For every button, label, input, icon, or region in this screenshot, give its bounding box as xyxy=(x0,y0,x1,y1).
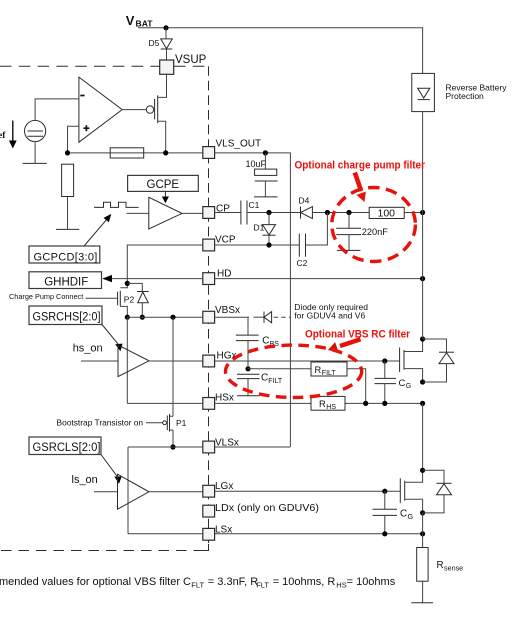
svg-text:C2: C2 xyxy=(297,258,308,268)
svg-text:C: C xyxy=(399,378,406,389)
svg-text:10uF: 10uF xyxy=(246,159,267,169)
pin VCP xyxy=(203,235,236,251)
node junction CG low bottom xyxy=(382,531,387,536)
wire battery box to CP node xyxy=(422,112,424,213)
svg-text:GCPCD[3:0]: GCPCD[3:0] xyxy=(34,252,98,264)
wire HD rail xyxy=(110,278,423,280)
label diode only required xyxy=(294,302,368,320)
svg-text:VBSx: VBSx xyxy=(215,305,240,316)
bottom note text xyxy=(0,576,396,589)
wire rail HD to HS drain xyxy=(422,213,424,340)
svg-text:HS: HS xyxy=(336,580,346,589)
transistor P1 bootstrap xyxy=(163,317,187,447)
capacitor CG low side xyxy=(373,491,414,534)
wire CP to C1 xyxy=(215,212,241,214)
op-amp U1 xyxy=(79,77,122,142)
resistor 100 xyxy=(369,207,404,219)
arrow GCPCD callout xyxy=(84,214,111,246)
node junction HS drain xyxy=(420,336,425,341)
diode D1 xyxy=(254,213,276,246)
node junction 10uF tap xyxy=(263,150,268,155)
wire driver HS supply column xyxy=(126,317,128,403)
svg-text:VSUP: VSUP xyxy=(175,54,207,66)
svg-text:for GDUV4 and V6: for GDUV4 and V6 xyxy=(294,310,365,320)
diode D4 xyxy=(299,196,313,219)
svg-text:R: R xyxy=(315,365,322,375)
svg-text:VLS_OUT: VLS_OUT xyxy=(216,139,262,150)
Reverse Battery Protection box xyxy=(412,73,507,111)
pin VLS_OUT xyxy=(203,139,261,159)
diode bootstrap internal xyxy=(127,283,148,317)
node junction PMOS drain xyxy=(163,150,168,155)
node junction sense top xyxy=(420,531,425,536)
resistor RHS xyxy=(311,396,345,411)
node junction P1 bottom xyxy=(170,444,175,449)
node junction VBAT-D5 xyxy=(163,25,168,30)
svg-text:GSRCLS[2:0]: GSRCLS[2:0] xyxy=(33,442,101,454)
wire LGx from driver xyxy=(149,491,203,493)
svg-text:G: G xyxy=(406,383,411,390)
svg-text:C1: C1 xyxy=(249,200,260,210)
node junction CG low top xyxy=(382,489,387,494)
svg-text:VCP: VCP xyxy=(215,235,236,246)
wire LS source to LSx xyxy=(422,513,424,548)
arrow into GHHDIF xyxy=(102,275,112,282)
node junction LS drain xyxy=(420,468,425,473)
wire non-inverting input xyxy=(68,126,79,153)
svg-text:ls_on: ls_on xyxy=(72,474,98,486)
ground divider xyxy=(56,228,79,230)
node junction P2 bottom xyxy=(125,315,130,320)
pin VLSx xyxy=(203,438,239,453)
svg-text:C: C xyxy=(262,336,269,347)
wire VBSx right to external diode xyxy=(215,316,249,318)
pin HD xyxy=(203,269,232,285)
label Bootstrap Transistor on xyxy=(57,418,163,428)
node junction filter node xyxy=(245,366,250,371)
node junction RFILT drop xyxy=(363,401,368,406)
label ref arrow xyxy=(0,121,17,149)
wire 100 to VBAT rail xyxy=(404,212,422,214)
svg-text:R: R xyxy=(319,399,326,409)
svg-text:R: R xyxy=(437,560,444,571)
svg-text:D1: D1 xyxy=(254,223,265,233)
resistor RFILT xyxy=(311,362,347,377)
wire resistor to ground xyxy=(67,197,69,230)
transistor P2 xyxy=(118,283,135,317)
wire C2 to filter node xyxy=(306,213,328,246)
box GCPCD[3:0] xyxy=(29,246,100,264)
wire VCP left to P2 column xyxy=(127,245,203,283)
svg-text:LDx (only on GDUV6): LDx (only on GDUV6) xyxy=(215,503,319,514)
buffer amplifier charge pump xyxy=(149,197,182,229)
wire current source to ground xyxy=(34,142,36,164)
svg-text:GSRCHS[2:0]: GSRCHS[2:0] xyxy=(33,311,101,323)
node VBAT label xyxy=(126,13,153,29)
svg-text:D4: D4 xyxy=(299,196,310,206)
pin VSUP xyxy=(160,54,207,75)
node junction P1 column top xyxy=(170,315,175,320)
svg-text:= 3.3nF, R: = 3.3nF, R xyxy=(208,576,259,588)
wire D4 to 100 resistor xyxy=(312,212,369,214)
capacitor C1 xyxy=(241,200,260,225)
svg-text:ef: ef xyxy=(0,131,6,141)
wire D5 to VSUP pin xyxy=(166,49,168,60)
node junction HS source xyxy=(420,379,425,384)
wire VCP right to C2 xyxy=(215,244,300,246)
ground current source xyxy=(23,162,47,164)
svg-text:220nF: 220nF xyxy=(362,227,388,237)
capacitor C2 xyxy=(297,234,308,268)
diode D5 xyxy=(149,38,173,49)
node junction CG bottom xyxy=(382,401,387,406)
label Charge Pump Connect xyxy=(9,292,118,301)
wire VLS_OUT external xyxy=(215,153,291,447)
diode body HS xyxy=(423,339,454,382)
svg-text:BAT: BAT xyxy=(136,19,154,29)
svg-text:Optional charge pump filter: Optional charge pump filter xyxy=(295,159,426,171)
svg-text:FILT: FILT xyxy=(322,370,337,377)
capacitor CFILT xyxy=(237,373,283,396)
pin LDx xyxy=(203,503,319,517)
red annotation VBS RC filter xyxy=(226,329,411,398)
wire buffer output to CP xyxy=(182,212,203,214)
node junction diode bottom xyxy=(140,315,145,320)
svg-text:hs_on: hs_on xyxy=(73,342,103,354)
wire VBAT rail xyxy=(138,28,422,73)
driver HS triangle xyxy=(118,345,149,377)
wire RFILT to HSx node xyxy=(347,369,366,404)
node junction feedback left xyxy=(65,150,70,155)
svg-text:D5: D5 xyxy=(149,38,160,48)
node junction 220nF tap xyxy=(346,210,351,215)
box GCPE xyxy=(128,175,199,191)
node junction LS source xyxy=(420,510,425,515)
svg-text:FLT: FLT xyxy=(256,580,269,589)
pin LGx xyxy=(203,481,234,497)
capacitor 220nF xyxy=(336,213,388,251)
wire HGx from driver xyxy=(149,360,203,362)
node junction rail CP xyxy=(420,210,425,215)
pin HGx xyxy=(203,351,237,367)
node junction D1 tap xyxy=(266,210,271,215)
svg-text:GHHDIF: GHHDIF xyxy=(44,276,88,288)
svg-text:sense: sense xyxy=(444,564,463,573)
svg-text:G: G xyxy=(408,512,414,521)
wire C1 to D4 xyxy=(247,212,301,214)
ground Rsense xyxy=(411,602,433,604)
svg-text:V: V xyxy=(126,13,135,28)
pin VBSx xyxy=(203,305,240,323)
wire inverting input xyxy=(35,99,79,121)
wire op-amp output to PMOS gate xyxy=(122,109,146,111)
transistor MOSFET low side xyxy=(400,470,422,513)
wire LGx external xyxy=(215,490,401,492)
svg-text:HD: HD xyxy=(217,269,231,280)
svg-text:Charge Pump Connect: Charge Pump Connect xyxy=(9,292,83,301)
svg-text:Bootstrap Transistor on: Bootstrap Transistor on xyxy=(57,418,144,428)
wire ls_on input xyxy=(94,491,118,493)
diode external bootstrap (optional) xyxy=(254,312,292,323)
node junction charge pump filter left xyxy=(325,210,330,215)
svg-text:= 10ohms: = 10ohms xyxy=(347,576,396,588)
node junction P2 top xyxy=(125,281,130,286)
pin LSx xyxy=(203,525,232,541)
wire filter node to RFILT xyxy=(248,368,311,370)
svg-text:C: C xyxy=(261,373,268,384)
node junction D1 bottom xyxy=(266,242,271,247)
wire VLSx rail xyxy=(128,446,290,448)
capacitor CBS xyxy=(236,317,279,369)
box GSRCHS[2:0] xyxy=(29,306,123,351)
svg-text:HS: HS xyxy=(326,404,336,411)
pin HSx xyxy=(203,393,234,410)
node junction CG top xyxy=(382,358,387,363)
svg-text:LGx: LGx xyxy=(215,481,233,492)
clock waveform GCPCD xyxy=(94,202,139,207)
box GSRCLS[2:0] xyxy=(29,437,122,484)
node junction phase xyxy=(420,401,425,406)
svg-text:mended values for optional VBS: mended values for optional VBS filter C xyxy=(0,576,191,588)
svg-text:Protection: Protection xyxy=(446,91,485,101)
transistor MOSFET high side xyxy=(400,339,423,382)
wire phase to LS drain xyxy=(422,403,424,470)
wire LSx rail xyxy=(128,533,423,535)
capacitor 10uF xyxy=(246,153,278,197)
svg-text:= 10ohms, R: = 10ohms, R xyxy=(273,576,336,588)
arrow GCPE to buffer xyxy=(162,191,169,203)
wire HSx rail xyxy=(127,402,422,404)
pin CP xyxy=(203,204,230,219)
resistor lower divider vertical xyxy=(62,164,74,196)
capacitor CG high side xyxy=(375,361,412,403)
red annotation charge pump filter xyxy=(295,159,426,261)
svg-text:GCPE: GCPE xyxy=(147,179,180,191)
wire Rsense to ground xyxy=(422,581,424,603)
svg-text:FILT: FILT xyxy=(268,378,283,385)
current source Iref xyxy=(24,120,45,141)
driver LS triangle xyxy=(118,474,150,509)
wire VBSx left rail xyxy=(127,316,203,318)
wire VLS feedback rail xyxy=(68,152,203,154)
wire driver LS supply column xyxy=(127,447,129,534)
transistor PMOS pass device xyxy=(146,95,165,153)
svg-text:100: 100 xyxy=(378,208,396,220)
resistor Rsense xyxy=(417,548,463,582)
svg-text:P1: P1 xyxy=(176,418,187,428)
IC boundary dashed box xyxy=(0,66,209,550)
wire hs_on input xyxy=(81,360,118,362)
wire buffer input xyxy=(126,212,148,214)
box GHHDIF xyxy=(29,272,102,289)
svg-text:HSx: HSx xyxy=(215,393,234,404)
diode body LS xyxy=(423,470,452,513)
node junction rail HD xyxy=(420,276,425,281)
svg-text:C: C xyxy=(400,509,407,520)
resistor feedback horizontal xyxy=(110,148,144,158)
wire VBAT dot to D5 xyxy=(165,28,167,39)
wire VSUP pin to PMOS source xyxy=(158,74,167,97)
svg-text:P2: P2 xyxy=(124,294,135,304)
svg-text:FLT: FLT xyxy=(191,580,204,589)
wire HGx external xyxy=(215,360,400,362)
